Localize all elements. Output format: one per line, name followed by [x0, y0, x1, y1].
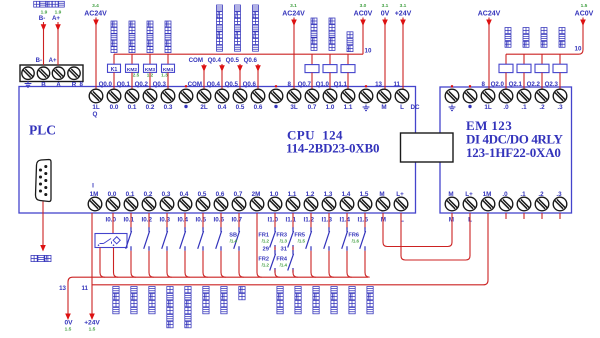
- vertical label 齐头接触器: [147, 21, 153, 27]
- unused terminal red tick x=186: [185, 85, 187, 87]
- svg-text:M: M: [381, 104, 386, 111]
- svg-text:0.1: 0.1: [126, 191, 135, 198]
- vertical label 输送变频器启动: [235, 5, 241, 11]
- EM valve coil Q2.1: [517, 64, 531, 72]
- unused terminal red tick x=366: [365, 85, 367, 87]
- svg-text:3.1: 3.1: [400, 3, 407, 9]
- arrow A+: [55, 24, 61, 31]
- NO contact x=221: [216, 227, 222, 251]
- EM bottom terminal .2 x=542: [535, 197, 549, 211]
- relay coil K1: [108, 64, 121, 72]
- input wire bottom to bus x=293: [293, 270, 298, 278]
- CPU top terminal ground x=366: [359, 89, 373, 103]
- svg-text:.3: .3: [556, 191, 562, 198]
- CPU bottom terminal 0.1 x=131: [124, 197, 138, 211]
- svg-text:M: M: [449, 217, 454, 224]
- input wire bottom to bus x=347: [347, 251, 352, 277]
- svg-text:13: 13: [375, 81, 382, 88]
- input wire bottom to bus I0.7: [239, 251, 244, 277]
- CPU bottom terminal 0.0 x=113: [106, 197, 120, 211]
- signal wire into terminal x=240: [239, 64, 241, 89]
- valve coil Q1.1: [341, 65, 355, 73]
- input wire bottom to bus x=149: [149, 251, 154, 277]
- svg-text:B-: B-: [39, 15, 46, 22]
- wire 2M to bus: [257, 213, 262, 277]
- svg-text:L: L: [400, 104, 404, 111]
- EM top ground symbol: [449, 105, 456, 111]
- contact SB 急停: [234, 227, 240, 251]
- svg-text:Q: Q: [93, 111, 98, 118]
- vertical label 大刀压紧阀: [311, 18, 317, 24]
- coil wire to terminal Q0.0: [113, 72, 115, 89]
- svg-text:1.5: 1.5: [65, 327, 72, 333]
- CPU top terminal 0.5 x=240: [233, 89, 247, 103]
- svg-text:0.6: 0.6: [254, 104, 263, 111]
- svg-text:AC24V: AC24V: [84, 11, 107, 18]
- arrow AC0V #2: [580, 20, 586, 27]
- svg-text:+24V: +24V: [84, 320, 100, 327]
- svg-text:B-: B-: [36, 58, 42, 64]
- input wire bottom to bus I1.2: [311, 251, 316, 277]
- CPU bottom terminal 1.3 x=329: [322, 197, 336, 211]
- svg-text:COM: COM: [189, 57, 203, 64]
- signal wire into terminal x=258: [257, 64, 259, 89]
- svg-text:.2: .2: [539, 104, 545, 111]
- proximity switch right pin to bus: [114, 248, 119, 278]
- CPU bottom terminal L+ x=401: [394, 197, 408, 211]
- svg-text:L+: L+: [465, 191, 473, 198]
- svg-text:I1.3: I1.3: [321, 217, 332, 224]
- EM coil top bus (wire 10): [506, 18, 583, 55]
- svg-text:R: R: [72, 81, 77, 88]
- CPU top terminal &#8226; x=186: [179, 89, 193, 103]
- valve coil wire to terminal Q1.0: [329, 73, 331, 89]
- wire I0.0 into proximity switch: [112, 213, 114, 234]
- +24V lower bus: [92, 213, 488, 285]
- svg-text:I1.5: I1.5: [357, 217, 368, 224]
- arrow AC24V #2: [291, 20, 297, 27]
- svg-text:3.1: 3.1: [382, 3, 389, 9]
- input wire top x=131: [130, 213, 132, 229]
- svg-text:1.0: 1.0: [326, 104, 335, 111]
- wire between FR1 FR2: [274, 247, 276, 253]
- input wire bottom to bus x=275: [275, 270, 280, 278]
- CPU bottom terminal 1.1 x=293: [286, 197, 300, 211]
- EM valve coil stub x=542: [541, 54, 543, 64]
- CPU bottom terminal 1.0 x=275: [268, 197, 282, 211]
- svg-text:I0.1: I0.1: [123, 217, 134, 224]
- CPU bottom terminal 0.2 x=149: [142, 197, 156, 211]
- CPU bottom terminal 1M x=95: [88, 197, 102, 211]
- wire 0V to terminal M: [384, 18, 386, 90]
- arrow AC24V #3: [486, 20, 492, 27]
- svg-text:Q0.7: Q0.7: [298, 81, 312, 88]
- svg-text:0V: 0V: [381, 11, 390, 18]
- CPU top terminal 3L x=294: [287, 89, 301, 103]
- svg-text:I0.7: I0.7: [231, 217, 242, 224]
- svg-text:AC24V: AC24V: [282, 11, 305, 18]
- EM input stub x=524: [523, 213, 525, 219]
- relay coil KM4: [162, 64, 175, 72]
- svg-text:0V: 0V: [64, 320, 73, 327]
- valve coil wire to terminal Q0.7: [311, 73, 313, 89]
- svg-text:I1.2: I1.2: [303, 217, 314, 224]
- arrow AC24V: [93, 20, 99, 27]
- svg-text:1L: 1L: [484, 104, 492, 111]
- CPU bottom terminal 0.5 x=203: [196, 197, 210, 211]
- svg-text:I0.4: I0.4: [177, 217, 188, 224]
- CPU top terminal L x=402: [395, 89, 409, 103]
- coil feed stub x=132: [131, 54, 133, 64]
- EM bottom terminal L+ x=470: [463, 197, 477, 211]
- EM bottom terminal .0 x=506: [499, 197, 513, 211]
- wire AC0V riser: [362, 18, 364, 55]
- vertical label 齐头下限: [203, 287, 209, 293]
- EM valve coil Q2.0: [499, 64, 513, 72]
- EM input stub x=560: [559, 213, 561, 219]
- input wire top x=293: [292, 213, 294, 229]
- valve coil stub x=312: [311, 54, 313, 64]
- svg-text:10: 10: [365, 48, 372, 55]
- svg-text:29: 29: [263, 247, 270, 253]
- comm block screw terminal 2: [37, 67, 49, 79]
- svg-text:I0.3: I0.3: [159, 217, 170, 224]
- EM top terminal ground x=452: [445, 89, 459, 103]
- CPU top terminal 0.0 x=114: [107, 89, 121, 103]
- svg-text:/1.2: /1.2: [262, 263, 270, 268]
- EM valve coil stub x=524: [523, 54, 525, 64]
- EM valve coil stub x=560: [559, 54, 561, 64]
- svg-text:1.5: 1.5: [89, 327, 96, 333]
- svg-text:11: 11: [393, 81, 400, 88]
- svg-text:I0.5: I0.5: [195, 217, 206, 224]
- svg-text:2.5: 2.5: [133, 73, 140, 78]
- arrow B-: [41, 24, 47, 31]
- vertical label 齐头过载: [277, 287, 283, 293]
- CPU top terminal 0.6 x=258: [251, 89, 265, 103]
- input wire bottom to bus x=329: [329, 251, 334, 277]
- valve coil stub x=330: [329, 54, 331, 64]
- svg-text:Q0.3: Q0.3: [153, 81, 167, 88]
- CPU top terminal 1.1 x=348: [341, 89, 355, 103]
- svg-text:123-1HF22-0XA0: 123-1HF22-0XA0: [466, 145, 561, 160]
- vertical label 压力开关: [131, 287, 137, 293]
- svg-text:L+: L+: [396, 191, 404, 198]
- svg-text:1.5: 1.5: [360, 191, 369, 198]
- CPU top terminal 1L x=96: [89, 89, 103, 103]
- input wire top x=347: [346, 213, 348, 229]
- svg-text:I1.0: I1.0: [267, 217, 278, 224]
- vertical label 齐头精修检测: [185, 287, 191, 293]
- svg-text:Q1.1: Q1.1: [334, 81, 348, 88]
- svg-text:AC24V: AC24V: [478, 11, 501, 18]
- svg-text:8: 8: [482, 81, 486, 88]
- svg-text:+24V: +24V: [395, 11, 412, 18]
- NO contact x=329: [324, 227, 330, 251]
- vertical label 齐头变频器启动: [217, 5, 223, 11]
- svg-text:1.3: 1.3: [161, 73, 168, 78]
- EM valve coil stub x=506: [505, 54, 507, 64]
- input wire top x=167: [166, 213, 168, 229]
- label 变频器通讯: [34, 1, 40, 7]
- svg-text:/1.6: /1.6: [352, 239, 360, 244]
- svg-text:8: 8: [80, 81, 84, 88]
- valve coil stub x=348: [347, 54, 349, 64]
- wire A+ down to comm block: [57, 22, 59, 65]
- input wire bottom to bus x=131: [131, 251, 136, 277]
- svg-text:.0: .0: [503, 104, 509, 111]
- svg-text:Q0.5: Q0.5: [225, 81, 239, 88]
- CPU bottom terminal 0.3 x=167: [160, 197, 174, 211]
- wire DB9 to touch screen: [42, 202, 44, 247]
- valve coil Q1.0: [323, 65, 337, 73]
- input wire top x=185: [184, 213, 186, 229]
- EM top dot terminal label: [468, 105, 471, 108]
- arrow +24V: [400, 20, 406, 27]
- vertical label 压紧阀: [541, 28, 547, 34]
- svg-text:I0.2: I0.2: [141, 217, 152, 224]
- svg-text:I1.4: I1.4: [339, 217, 350, 224]
- PLC CPU block outline: [19, 87, 416, 214]
- EM valve coil Q2.2: [535, 64, 549, 72]
- svg-text:/1.4: /1.4: [230, 239, 238, 244]
- vertical label 齐头阀: [347, 32, 353, 38]
- EM top terminal .1 x=524: [517, 89, 531, 103]
- input wire top x=203: [202, 213, 204, 229]
- CPU bottom terminal 2M x=257: [250, 197, 264, 211]
- svg-text:1.5: 1.5: [581, 3, 588, 9]
- svg-text:114-2BD23-0XB0: 114-2BD23-0XB0: [286, 141, 379, 156]
- svg-text:0.4: 0.4: [180, 191, 189, 198]
- DB9 connector: [36, 160, 52, 202]
- comm block ground symbol: [25, 81, 32, 87]
- vertical label 齐尾阀: [505, 28, 511, 34]
- vertical label 大刀切料阀: [329, 18, 335, 24]
- EM valve coil Q2.3: [553, 64, 567, 72]
- svg-text:I0.0: I0.0: [105, 217, 116, 224]
- input wire top x=221: [220, 213, 222, 229]
- EM top terminal 1L x=488: [481, 89, 495, 103]
- wire AC24V to terminal 1L: [95, 18, 97, 90]
- svg-text:Q0.1: Q0.1: [117, 81, 131, 88]
- CPU top terminal 0.2 x=150: [143, 89, 157, 103]
- input wire top I1.5: [364, 213, 366, 229]
- comm block screw terminal 4: [68, 67, 80, 79]
- svg-text:0.5: 0.5: [198, 191, 207, 198]
- comm block screw terminal 1: [22, 67, 34, 79]
- EM coil wire to terminal Q2.0: [505, 73, 507, 89]
- CPU bottom terminal 0.7 x=239: [232, 197, 246, 211]
- relay coil KM2: [126, 64, 139, 72]
- input wire top x=275: [274, 213, 276, 229]
- contact FR3: [288, 227, 294, 249]
- CPU top dot terminal label: [274, 105, 277, 108]
- coil wire to terminal Q0.3: [167, 72, 169, 89]
- svg-text:0.4: 0.4: [218, 104, 227, 111]
- svg-text:/1.2: /1.2: [262, 239, 270, 244]
- svg-text:1.2: 1.2: [306, 191, 315, 198]
- svg-text:0.5: 0.5: [236, 104, 245, 111]
- svg-text:M: M: [448, 191, 453, 198]
- contact FR2: [270, 250, 276, 273]
- svg-text:A+: A+: [49, 58, 57, 64]
- svg-text:I: I: [92, 183, 94, 190]
- signal wire into terminal x=204: [203, 64, 205, 89]
- svg-text:B: B: [41, 81, 46, 88]
- NO contact x=203: [198, 227, 204, 251]
- svg-text:.1: .1: [520, 191, 526, 198]
- svg-text:Q0.6: Q0.6: [243, 81, 257, 88]
- CPU top terminal 2L x=204: [197, 89, 211, 103]
- input wire bottom to bus x=221: [221, 251, 226, 277]
- svg-text:AC0V: AC0V: [354, 11, 373, 18]
- vertical label 抛光过载: [313, 287, 319, 293]
- vertical label 齐尾上限: [113, 287, 119, 293]
- wire between FR3 FR4: [292, 247, 294, 253]
- vertical label 精修接触器: [165, 21, 171, 27]
- NO contact x=149: [144, 227, 150, 251]
- svg-text:Q0.5: Q0.5: [226, 57, 240, 64]
- svg-text:/1.4: /1.4: [280, 263, 288, 268]
- CPU top terminal 0.3 x=168: [161, 89, 175, 103]
- svg-text:DC: DC: [410, 104, 420, 111]
- input wire top I0.7: [238, 213, 240, 229]
- wire 1M down to +24V (wire 11): [91, 213, 93, 314]
- svg-text:10: 10: [575, 46, 582, 53]
- wire AC24V to EM 1L: [488, 18, 490, 90]
- contact FR4: [288, 250, 294, 273]
- svg-text:0.7: 0.7: [234, 191, 243, 198]
- CPU top terminal 0.7 x=312: [305, 89, 319, 103]
- input wire bottom to bus I1.5: [365, 251, 370, 277]
- svg-text:0.3: 0.3: [164, 104, 173, 111]
- arrow touch screen: [40, 245, 46, 252]
- relay coil KM3: [144, 64, 157, 72]
- EM bottom terminal M x=452: [445, 197, 459, 211]
- coil feed stub x=168: [167, 54, 169, 64]
- vertical label 变频器复位: [111, 21, 117, 27]
- wire AC24V to terminal 3L: [293, 18, 295, 90]
- EM input stub x=542: [541, 213, 543, 219]
- CPU bottom terminal M x=383: [376, 197, 390, 211]
- unused terminal red tick x=470: [469, 85, 471, 87]
- vertical label 吹气检测: [331, 287, 337, 293]
- CPU top terminal 1.0 x=330: [323, 89, 337, 103]
- NO contact x=347: [342, 227, 348, 251]
- svg-text:Q0.0: Q0.0: [99, 81, 113, 88]
- svg-text:0.3: 0.3: [162, 191, 171, 198]
- svg-text:8: 8: [288, 81, 292, 88]
- EM top terminal &#8226; x=470: [463, 89, 477, 103]
- valve coil Q0.7: [305, 65, 319, 73]
- svg-text:Q2.2: Q2.2: [527, 81, 541, 88]
- svg-text:A+: A+: [52, 15, 60, 22]
- input wire top x=329: [328, 213, 330, 229]
- EM bottom terminal .1 x=524: [517, 197, 531, 211]
- vertical label 开槽变频器启动: [253, 5, 259, 11]
- contact FR5: [306, 227, 312, 251]
- svg-text:.0: .0: [502, 191, 508, 198]
- wire B- down to comm block: [43, 22, 45, 65]
- arrow 0V: [382, 20, 388, 27]
- coil feed stub x=114: [113, 54, 115, 64]
- svg-text:.1: .1: [521, 104, 527, 111]
- proximity switch box (齐尾上限 sensor): [95, 234, 127, 248]
- svg-text:0.0: 0.0: [108, 191, 117, 198]
- input wire bottom to bus x=185: [185, 251, 190, 277]
- svg-text:1M: 1M: [483, 191, 492, 198]
- vertical label 吹气阀: [523, 28, 529, 34]
- CPU top ground symbol: [363, 105, 370, 111]
- unused terminal red tick x=276: [275, 85, 277, 87]
- svg-text:PLC: PLC: [29, 123, 56, 138]
- svg-text:/1.5: /1.5: [298, 239, 306, 244]
- signal wire into terminal x=222: [221, 64, 223, 89]
- svg-text:3.1: 3.1: [290, 3, 297, 9]
- svg-text:M: M: [379, 191, 384, 198]
- svg-text:0.2: 0.2: [146, 104, 155, 111]
- CPU bottom terminal 0.4 x=185: [178, 197, 192, 211]
- svg-text:I0.6: I0.6: [213, 217, 224, 224]
- svg-text:.3: .3: [557, 104, 563, 111]
- svg-text:1M: 1M: [90, 191, 99, 198]
- CPU top terminal &#8226; x=276: [269, 89, 283, 103]
- coil wire to terminal Q0.1: [131, 72, 133, 89]
- vertical label 急停: [239, 287, 245, 293]
- CPU bottom terminal 1.2 x=311: [304, 197, 318, 211]
- bus connector between CPU and EM: [401, 133, 454, 162]
- EM coil wire to terminal Q2.1: [523, 73, 525, 89]
- svg-text:31: 31: [281, 247, 288, 253]
- svg-text:13: 13: [59, 285, 66, 292]
- input wire top x=149: [148, 213, 150, 229]
- svg-text:Q2.3: Q2.3: [545, 81, 559, 88]
- svg-text:1.4: 1.4: [342, 191, 351, 198]
- svg-text:/1.3: /1.3: [280, 239, 288, 244]
- svg-text:0.2: 0.2: [144, 191, 153, 198]
- input wire bottom to bus x=203: [203, 251, 208, 277]
- svg-text:0.7: 0.7: [308, 104, 317, 111]
- wire CPU L+ to EM L+: [401, 213, 470, 260]
- proximity switch left pin to bus: [100, 248, 105, 278]
- CPU top terminal 0.4 x=222: [215, 89, 229, 103]
- RS485 comm terminal block: [20, 65, 83, 82]
- svg-text:3.4: 3.4: [92, 3, 99, 9]
- CPU top terminal M x=384: [377, 89, 391, 103]
- vertical label 厚料检测: [149, 287, 155, 293]
- svg-text:0.6: 0.6: [216, 191, 225, 198]
- coil wire to terminal Q0.2: [149, 72, 151, 89]
- svg-text:Q0.4: Q0.4: [208, 57, 222, 64]
- coil feed stub x=150: [149, 54, 151, 64]
- svg-text:0.0: 0.0: [110, 104, 119, 111]
- EM top terminal .0 x=506: [499, 89, 513, 103]
- coil top bus (AC0V wire 10): [114, 53, 363, 55]
- 0V riser and contact common bus (wire 13): [68, 277, 368, 314]
- svg-text:1.1: 1.1: [344, 104, 353, 111]
- vertical label 齐尾下限: [221, 287, 227, 293]
- svg-text:I1.1: I1.1: [285, 217, 296, 224]
- arrow +24V bottom: [89, 314, 95, 321]
- svg-text:2M: 2M: [252, 191, 261, 198]
- comm block screw terminal 3: [52, 67, 64, 79]
- EM coil wire to terminal Q2.2: [541, 73, 543, 89]
- CPU top terminal 0.1 x=132: [125, 89, 139, 103]
- EM expansion block outline: [440, 87, 572, 213]
- arrow 0V bottom: [65, 314, 71, 321]
- CPU bottom terminal 0.6 x=221: [214, 197, 228, 211]
- svg-text:AC0V: AC0V: [575, 11, 594, 18]
